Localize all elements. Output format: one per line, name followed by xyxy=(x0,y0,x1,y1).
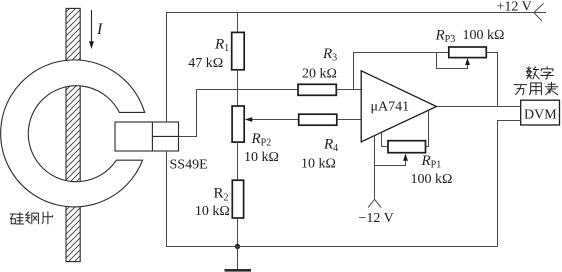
svg-text:SS49E: SS49E xyxy=(170,158,208,173)
potentiometer RP3 xyxy=(449,47,487,58)
svg-text:47 kΩ: 47 kΩ xyxy=(188,56,223,71)
RP1 wiper arrow xyxy=(375,154,408,166)
svg-text:10 kΩ: 10 kΩ xyxy=(244,150,279,165)
+12V supply arrow xyxy=(534,4,544,22)
wire R4 to non-inverting input xyxy=(337,119,361,121)
wire RP3 to output node xyxy=(486,53,497,107)
potentiometer RP1 xyxy=(388,141,426,153)
op-amp U1 uA741 xyxy=(361,71,436,142)
wire feedback node xyxy=(354,53,449,90)
junction dot xyxy=(235,244,240,249)
svg-text:10 kΩ: 10 kΩ xyxy=(195,204,230,219)
wire R1 top stub xyxy=(237,13,239,33)
svg-text:μA741: μA741 xyxy=(371,100,410,115)
svg-text:100 kΩ: 100 kΩ xyxy=(463,28,505,43)
wire op-amp output to DVM xyxy=(437,106,521,108)
svg-text:I: I xyxy=(96,21,103,38)
RP2 wiper arrow xyxy=(245,117,299,122)
current arrow I xyxy=(89,10,94,49)
svg-text:+12 V: +12 V xyxy=(497,0,532,15)
DVM meter box xyxy=(521,100,560,125)
wire +12V top rail xyxy=(166,12,546,14)
wire bottom ground rail xyxy=(166,246,498,248)
wire sensor output to R3 xyxy=(179,90,299,137)
svg-text:100 kΩ: 100 kΩ xyxy=(411,172,453,187)
ground symbol xyxy=(225,247,252,271)
wire sensor V+ pin to top rail xyxy=(166,12,168,122)
label 硅钢片 (silicon steel sheet) xyxy=(11,212,53,224)
wire R1 to RP2 xyxy=(237,70,239,106)
wire RP2 to R2 xyxy=(237,142,239,180)
resistor R2 xyxy=(232,180,243,218)
resistor R3 xyxy=(298,84,336,95)
-12V chevron terminal xyxy=(368,199,381,207)
svg-text:20 kΩ: 20 kΩ xyxy=(302,67,337,82)
wire -12V supply to op-amp xyxy=(374,136,376,200)
wire RP1 left terminal to op-amp xyxy=(382,133,389,147)
magnetic core C-ring xyxy=(1,60,145,207)
hall sensor SS49E body xyxy=(115,122,179,151)
wire DVM low terminal to ground rail xyxy=(498,121,521,247)
label 万用表 (multimeter) xyxy=(514,82,558,95)
label 数字 (digital) xyxy=(526,67,553,79)
wire R3 to inverting input xyxy=(336,89,361,91)
resistor R4 xyxy=(299,114,337,125)
svg-text:DVM: DVM xyxy=(524,108,557,123)
RP3 wiper arrow xyxy=(437,53,470,69)
svg-text:−12 V: −12 V xyxy=(359,211,394,226)
resistor R1 xyxy=(232,32,245,69)
silicon steel sheet bar (hatched) xyxy=(66,8,80,261)
wire sensor ground pin xyxy=(166,151,168,247)
wire RP1 right terminal to output xyxy=(426,110,429,146)
svg-text:10 kΩ: 10 kΩ xyxy=(301,157,336,172)
wire R2 to ground rail xyxy=(237,218,239,247)
potentiometer RP2 xyxy=(232,106,244,142)
